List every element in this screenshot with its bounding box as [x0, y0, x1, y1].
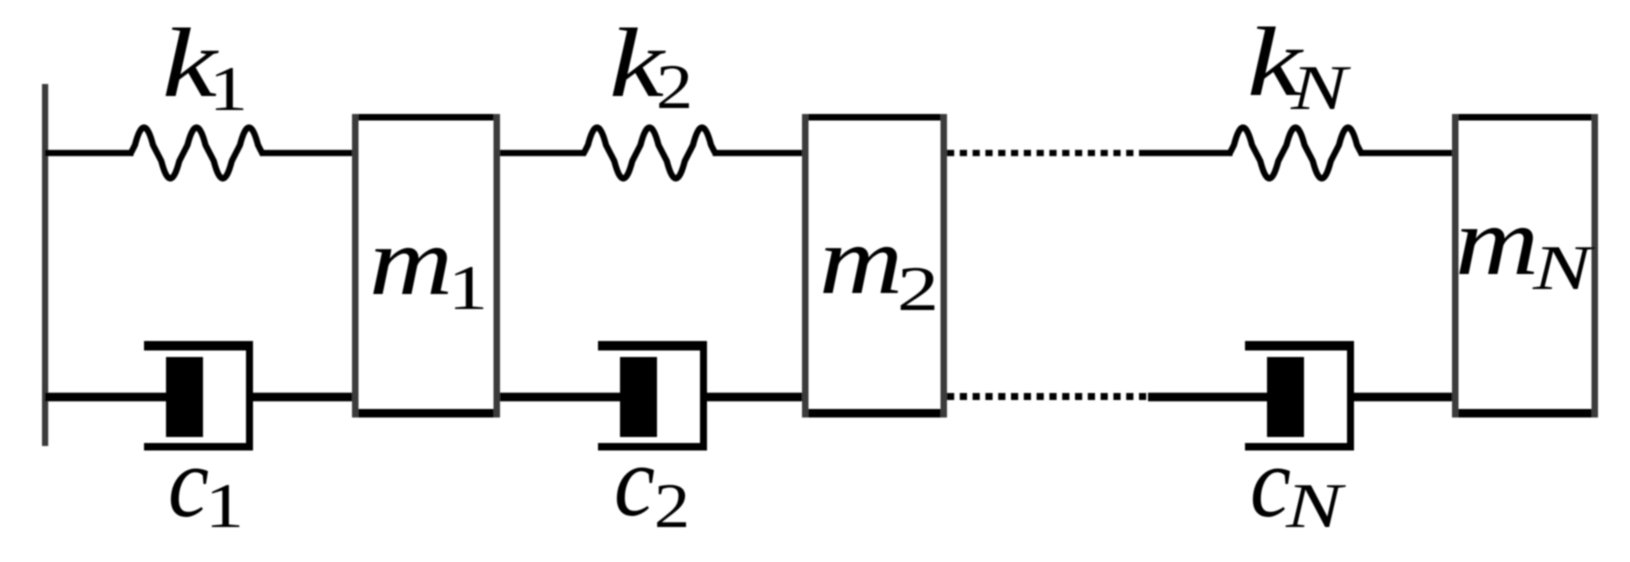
svg-text:N: N: [1532, 232, 1596, 303]
svg-text:m: m: [369, 208, 453, 315]
dotted wire mass m2 toward spring kN: [947, 150, 1139, 156]
svg-text:c: c: [614, 425, 655, 537]
label c1: [168, 426, 244, 541]
label k2: [609, 9, 693, 122]
svg-text:1: 1: [205, 471, 244, 541]
rod wall to damper c1 piston: [45, 393, 172, 402]
damper c2 (dashpot): [598, 341, 707, 451]
wire spring k1 to mass m1: [260, 150, 354, 156]
mass m1 box: [352, 114, 500, 418]
dotted rod mass m2 toward damper cN: [947, 393, 1148, 400]
svg-text:c: c: [1250, 426, 1291, 538]
spring k2: [584, 128, 715, 179]
label m2: [819, 207, 939, 324]
mass mN box: [1452, 114, 1598, 418]
fixed wall: [42, 84, 48, 446]
svg-text:c: c: [168, 426, 209, 538]
rod to damper cN piston: [1148, 393, 1270, 402]
wire wall to spring k1: [45, 150, 134, 156]
label m1: [369, 208, 488, 323]
mass m2 box: [802, 114, 947, 418]
label cN: [1250, 426, 1346, 541]
wire to spring kN: [1139, 150, 1233, 156]
spring kN: [1230, 128, 1361, 179]
svg-text:N: N: [1290, 52, 1352, 123]
damper c1 (dashpot): [144, 341, 253, 451]
damper cN (dashpot): [1245, 341, 1354, 451]
spring k1: [131, 128, 262, 179]
svg-text:1: 1: [448, 253, 488, 323]
rod damper c1 to mass m1: [249, 393, 354, 402]
label c2: [614, 425, 690, 541]
rod damper cN to mass mN: [1349, 393, 1454, 402]
wire mass m1 to spring k2: [497, 150, 586, 156]
svg-text:2: 2: [897, 253, 939, 324]
svg-text:1: 1: [209, 54, 248, 124]
wire spring k2 to mass m2: [713, 150, 804, 156]
label k1: [162, 9, 248, 124]
label mN: [1455, 188, 1596, 303]
label kN: [1247, 8, 1351, 123]
svg-text:2: 2: [656, 51, 693, 122]
svg-text:N: N: [1285, 470, 1347, 541]
rod mass m1 to damper c2 piston: [497, 393, 624, 402]
svg-text:2: 2: [654, 470, 690, 541]
rod damper c2 to mass m2: [700, 393, 804, 402]
svg-text:m: m: [819, 207, 903, 314]
wire spring kN to mass mN: [1359, 150, 1454, 156]
svg-text:m: m: [1455, 188, 1539, 295]
